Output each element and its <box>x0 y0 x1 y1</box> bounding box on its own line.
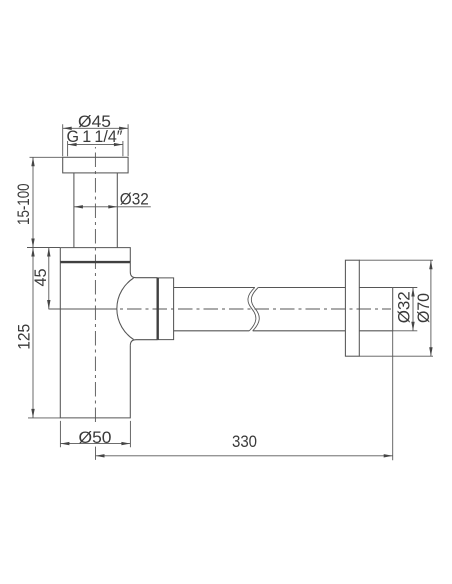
svg-text:125: 125 <box>15 324 34 350</box>
svg-text:G 1 1/4″: G 1 1/4″ <box>67 127 123 146</box>
svg-text:Ø50: Ø50 <box>79 428 112 447</box>
svg-text:45: 45 <box>31 269 50 287</box>
svg-text:330: 330 <box>232 432 257 451</box>
svg-text:Ø32: Ø32 <box>120 190 149 209</box>
svg-text:Ø70: Ø70 <box>414 293 433 323</box>
svg-text:15-100: 15-100 <box>14 183 33 225</box>
svg-text:Ø32: Ø32 <box>394 291 413 323</box>
